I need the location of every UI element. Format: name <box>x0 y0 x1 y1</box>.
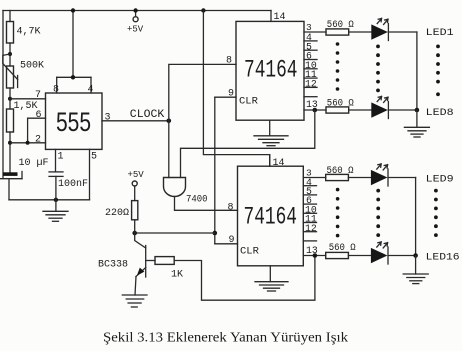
LED8 light arrows <box>377 96 388 102</box>
dots LED1-8 ellipsis left <box>376 45 380 93</box>
svg-text:14: 14 <box>274 12 286 23</box>
node +5V terminal 1 <box>133 17 138 22</box>
node junction LED8 bus <box>415 108 420 113</box>
resistor 220 ohm <box>132 201 138 220</box>
wire 1K to IC2 pin13 loop <box>174 256 315 301</box>
LED8 cathode bar <box>387 102 389 119</box>
node junction 1,5K / pin2 / cap <box>8 141 12 145</box>
wire 560C to LED9 <box>348 177 371 179</box>
svg-text:4,7K: 4,7K <box>17 27 41 38</box>
svg-text:8: 8 <box>53 85 59 96</box>
transistor Q1 emitter lead <box>136 268 146 277</box>
wire IC2 pin 14 stub <box>269 155 271 167</box>
wire 555 pin 2 <box>10 142 46 144</box>
ground LED bank 1 <box>404 110 429 137</box>
wire +5V drop to 555 <box>72 11 74 78</box>
ground IC1 <box>254 120 288 146</box>
ladder stubs IC2 pins 4-12 <box>303 186 316 241</box>
svg-text:2: 2 <box>35 135 41 146</box>
node junction rail to IC2 supply <box>201 8 205 12</box>
svg-text:8: 8 <box>228 203 234 214</box>
LED1 cathode bar <box>387 24 389 41</box>
LED16 diode <box>371 248 388 263</box>
svg-text:7400: 7400 <box>186 195 208 206</box>
LED9 diode <box>371 170 388 185</box>
capacitor C 10uF minus plate <box>0 178 22 180</box>
svg-text:+5V: +5V <box>127 25 144 35</box>
wire 560B to LED8 <box>349 109 372 111</box>
node junction 4,7K / 500K <box>8 52 12 56</box>
svg-text:9: 9 <box>228 89 234 100</box>
wire +5V to 220 ohm <box>134 186 136 201</box>
svg-text:CLOCK: CLOCK <box>130 109 165 121</box>
wire CLOCK to IC1 pin 8 <box>169 64 236 120</box>
node junction CLOCK <box>167 119 172 124</box>
transistor Q1 BC338 collector lead <box>135 233 146 248</box>
shift register 74164 IC2 box <box>238 166 304 266</box>
wire IC1 pin 9 stub <box>215 96 236 98</box>
dots LED9-16 ellipsis left <box>376 189 380 237</box>
node +5V terminal 2 <box>132 181 137 186</box>
wire gate output to IC2 pin 8 <box>175 197 238 211</box>
wire IC1 pin 3 row <box>304 31 326 33</box>
svg-text:500K: 500K <box>20 61 44 72</box>
wire LED16 to bus <box>388 255 416 257</box>
wire +5V terminal stub <box>135 11 137 17</box>
svg-text:LED8: LED8 <box>426 108 454 119</box>
wire pin8-pin4 bracket <box>57 76 91 78</box>
LED1 diode <box>371 24 388 39</box>
svg-text:CLR: CLR <box>239 96 259 108</box>
wire LED1 to bus <box>388 31 417 33</box>
svg-text:8: 8 <box>226 56 232 67</box>
LED8 diode <box>371 102 388 117</box>
wire 555 pin 8 stub <box>56 77 58 93</box>
svg-text:560 Ω: 560 Ω <box>327 20 354 31</box>
wire pot bottom to R 1,5K <box>9 88 11 109</box>
wire IC2 pin 3 row <box>303 177 325 179</box>
ground LED bank 2 <box>403 256 428 284</box>
LED1 light arrows <box>377 18 388 24</box>
wire LED cathode bus lower <box>415 178 417 256</box>
LED16 cathode bar <box>387 247 389 264</box>
node junction bracket <box>71 75 75 79</box>
wire 555 pin 1 to 100nF <box>55 149 57 172</box>
svg-text:14: 14 <box>273 158 285 169</box>
wire rail to R1 top <box>9 11 11 22</box>
dots LED1-8 ellipsis right <box>436 45 440 97</box>
svg-text:LED1: LED1 <box>426 28 454 39</box>
wire CLR vertical line <box>214 97 216 244</box>
wire base to 1K <box>146 260 155 262</box>
node junction bottom rail ground <box>54 198 58 202</box>
svg-text:5: 5 <box>91 152 97 163</box>
wire 555 pin 5 down <box>89 149 91 199</box>
wire 555 pin 6 <box>28 118 46 143</box>
ground transistor <box>122 295 147 307</box>
node junction pot / 1,5K / pin7 <box>8 97 12 101</box>
wire IC2 pin 13 row <box>303 255 325 257</box>
ground IC2 <box>255 266 288 291</box>
node junction pin6/pin2 <box>26 141 30 145</box>
wire CLR to transistor collector <box>135 232 215 234</box>
svg-text:LED9: LED9 <box>426 174 454 185</box>
wire IC2 pin 9 stub <box>215 243 238 245</box>
svg-text:100nF: 100nF <box>58 179 88 190</box>
capacitor C 100nF top plate <box>49 171 63 173</box>
wire 100nF to rail <box>55 176 57 199</box>
LED16 light arrows <box>377 242 388 248</box>
wire IC1 pin 13 row <box>304 109 326 111</box>
svg-text:1: 1 <box>58 152 64 163</box>
wire bottom rail <box>9 199 90 201</box>
shift register 74164 IC1 box <box>236 21 304 120</box>
svg-text:BC338: BC338 <box>98 260 128 271</box>
wire LED9 to bus <box>388 177 416 179</box>
ground main timer <box>43 200 68 222</box>
wire 555 pin 4 stub <box>90 77 92 93</box>
node junction pin13 IC1 feedback <box>313 108 318 113</box>
svg-text:12: 12 <box>305 79 317 90</box>
resistor 560 ohm D <box>326 252 349 258</box>
node junction LED16 bus <box>413 253 418 258</box>
svg-text:1K: 1K <box>171 270 183 281</box>
wire IC1 pin 14 stub <box>270 11 272 22</box>
wire CLOCK down to gate input 1 <box>168 121 170 178</box>
svg-text:220Ω: 220Ω <box>105 208 129 219</box>
svg-text:+5V: +5V <box>128 170 145 180</box>
svg-text:12: 12 <box>305 223 317 234</box>
resistor R 4,7K <box>7 22 14 44</box>
capacitor C 10uF plus plate <box>3 172 18 176</box>
wire 10uF to bottom rail <box>8 179 10 200</box>
capacitor C 100nF bottom plate <box>49 175 63 177</box>
wire emitter to ground <box>135 277 136 296</box>
node junction CLR / transistor <box>213 231 218 236</box>
wire 555 pin 7 <box>10 98 46 100</box>
wire left border drop to capacitor minus plate <box>2 11 4 179</box>
wire 220 ohm to collector node <box>134 220 136 233</box>
dots IC2 outputs ellipsis <box>336 188 340 238</box>
dots LED9-16 ellipsis right <box>434 189 438 237</box>
node junction pin13 IC2 loop <box>313 253 318 258</box>
LED9 cathode bar <box>387 169 389 186</box>
wire top +5V rail <box>3 10 271 12</box>
svg-text:3: 3 <box>105 113 111 124</box>
svg-text:560 Ω: 560 Ω <box>327 166 354 177</box>
wire 555 pin 3 CLOCK <box>102 120 169 122</box>
resistor R 1,5K <box>7 109 14 132</box>
svg-text:CLR: CLR <box>240 246 260 258</box>
wire rail down to IC2 pin14 <box>203 11 269 167</box>
wire R 4,7K bottom to pot <box>9 43 11 66</box>
svg-text:74164: 74164 <box>244 56 298 85</box>
svg-text:Şekil 3.13 Eklenerek Yanan: Şekil 3.13 Eklenerek Yanan Yürüyen Işık <box>103 331 348 346</box>
transistor Q1 emitter arrow <box>137 268 145 276</box>
node junction collector / 220 <box>132 231 137 236</box>
gate 7400 U2 <box>164 178 186 197</box>
capacitor C 10uF plate tick <box>21 172 23 179</box>
wire feedback pin13 IC1 to gate input 2 <box>181 110 315 178</box>
resistor 560 ohm C <box>326 174 349 180</box>
svg-text:74164: 74164 <box>244 203 298 232</box>
resistor 560 ohm A <box>326 29 349 35</box>
node junction rail / 555 supply <box>71 8 75 12</box>
svg-text:555: 555 <box>56 107 91 137</box>
svg-text:4: 4 <box>88 85 94 96</box>
svg-text:560 Ω: 560 Ω <box>329 243 356 254</box>
svg-text:9: 9 <box>229 235 235 246</box>
svg-text:6: 6 <box>36 110 42 121</box>
wire 1,5K bottom to 10uF <box>9 132 11 172</box>
wire 560D to LED16 <box>348 255 371 257</box>
dots IC1 outputs ellipsis <box>336 42 340 91</box>
wire LED8 to bus <box>388 109 417 111</box>
wire 560A to LED1 <box>349 31 372 33</box>
op timer 555 box U1 <box>46 93 103 149</box>
wire LED cathode bus upper <box>416 32 418 110</box>
potentiometer 500K wiper end bar <box>17 76 19 88</box>
svg-text:7: 7 <box>35 90 41 101</box>
potentiometer 500K wiper <box>3 54 18 80</box>
svg-text:560 Ω: 560 Ω <box>327 99 354 110</box>
svg-text:1,5K: 1,5K <box>14 101 38 112</box>
transistor Q1 base bar <box>145 246 147 278</box>
potentiometer 500K body <box>7 66 14 88</box>
resistor 1K <box>155 257 174 265</box>
resistor 560 ohm B <box>326 107 349 113</box>
LED9 light arrows <box>377 164 388 170</box>
node junction rail +5V <box>133 8 137 12</box>
ladder stubs IC1 pins 4-12 <box>304 41 317 97</box>
svg-text:10 µF: 10 µF <box>19 158 49 169</box>
svg-text:LED16: LED16 <box>426 253 460 264</box>
